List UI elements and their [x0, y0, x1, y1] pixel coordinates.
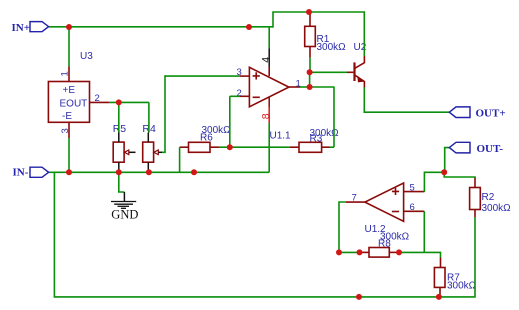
svg-text:+E: +E: [63, 85, 76, 96]
svg-text:1: 1: [60, 71, 71, 76]
svg-text:300kΩ: 300kΩ: [447, 281, 477, 292]
svg-text:IN-: IN-: [13, 167, 29, 179]
svg-text:U1.1: U1.1: [270, 131, 292, 142]
svg-text:OUT-: OUT-: [477, 143, 504, 155]
svg-text:300kΩ: 300kΩ: [317, 42, 347, 53]
svg-text:1: 1: [296, 79, 301, 90]
svg-text:300kΩ: 300kΩ: [482, 203, 512, 214]
svg-text:R3: R3: [310, 134, 323, 145]
svg-text:7: 7: [352, 193, 357, 204]
svg-text:4: 4: [260, 57, 272, 63]
svg-text:2: 2: [95, 93, 100, 104]
svg-text:3: 3: [60, 128, 71, 133]
svg-text:6: 6: [410, 202, 415, 213]
svg-text:R6: R6: [200, 133, 213, 144]
svg-text:R8: R8: [378, 239, 391, 250]
svg-text:GND: GND: [111, 208, 138, 222]
svg-text:U3: U3: [80, 51, 93, 62]
svg-text:8: 8: [260, 113, 272, 119]
svg-text:R2: R2: [482, 192, 495, 203]
svg-text:OUT+: OUT+: [476, 108, 506, 120]
svg-text:IN+: IN+: [12, 22, 31, 34]
svg-text:5: 5: [410, 183, 415, 194]
svg-text:EOUT: EOUT: [60, 99, 88, 110]
svg-text:-E: -E: [62, 111, 72, 122]
svg-text:2: 2: [237, 88, 242, 99]
